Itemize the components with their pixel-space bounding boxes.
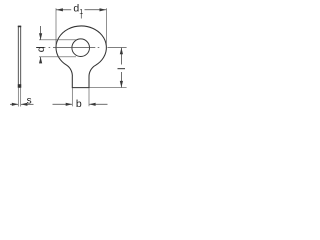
d arrow bottom (pointing up)	[39, 57, 42, 64]
d1 arrow right	[100, 8, 107, 11]
b dimension line right leg	[89, 103, 107, 105]
b extension line left	[71, 88, 73, 107]
l dimension line upper segment	[120, 48, 122, 65]
s dimension arrow right	[21, 103, 28, 106]
l dimension line lower segment	[120, 72, 122, 87]
vertical centerline tick	[80, 13, 82, 19]
s dimension arrow left	[12, 103, 18, 106]
d1 extension line right	[105, 8, 107, 45]
horizontal centerline dot 1	[49, 47, 51, 49]
b extension line right	[88, 88, 90, 107]
horizontal centerline dot 2	[98, 47, 100, 49]
l extension line top (center line extended)	[108, 47, 127, 49]
l arrow top (pointing up)	[120, 48, 123, 55]
d dimension line lower leg	[40, 57, 42, 63]
s extension line left	[17, 88, 19, 107]
horizontal centerline dash 2	[53, 47, 95, 49]
svg-text:b: b	[76, 98, 82, 110]
side view strip left edge	[17, 26, 19, 88]
d1 extension line left	[55, 8, 57, 45]
s dimension line left leg	[10, 103, 18, 105]
washer outer outline with tab	[56, 26, 106, 88]
s extension line right	[20, 88, 22, 107]
d dimension line upper leg	[40, 26, 42, 40]
d1 dimension line right segment	[85, 9, 107, 11]
horizontal centerline dash 1	[36, 47, 45, 49]
washer hole	[72, 39, 90, 57]
d1 dimension line left segment	[56, 9, 71, 11]
b arrow right	[89, 103, 96, 106]
b dimension line left leg	[53, 103, 73, 105]
d extension line top (hole top)	[39, 39, 76, 41]
side view strip bottom cap	[18, 84, 21, 88]
svg-text:s: s	[27, 96, 32, 107]
d arrow top (pointing down)	[39, 33, 42, 40]
l arrow bottom (pointing down)	[120, 81, 123, 88]
d1 arrow left	[56, 8, 63, 11]
b arrow left	[66, 103, 73, 106]
svg-text:d: d	[35, 46, 47, 52]
side view strip right edge	[20, 26, 22, 88]
s dimension line right leg	[21, 103, 34, 105]
side view strip top cap	[18, 26, 21, 28]
l extension line bottom (tab bottom extended)	[90, 87, 127, 89]
svg-text:l: l	[116, 68, 128, 70]
d extension line bottom (hole bottom)	[39, 56, 76, 58]
